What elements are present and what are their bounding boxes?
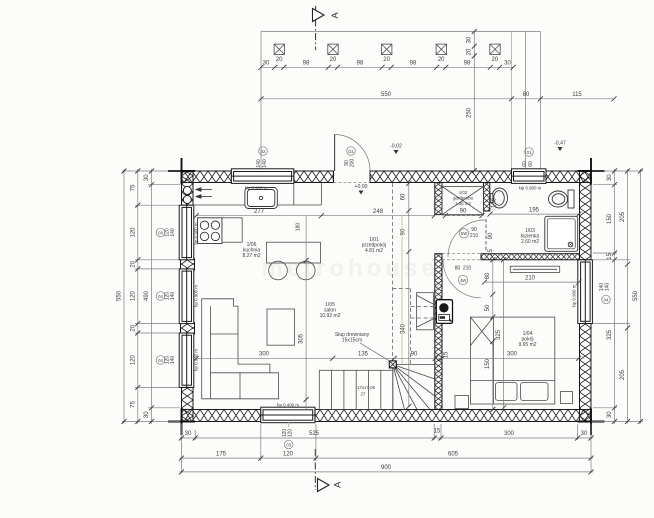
- bottom wall segment 2: [315, 410, 591, 422]
- bedroom door swing arc: [443, 260, 481, 298]
- right dim column 550: [633, 169, 643, 425]
- svg-text:135: 135: [358, 352, 369, 358]
- top wall segment 4: [546, 171, 591, 183]
- post label + leader: [335, 332, 391, 362]
- svg-text:305: 305: [299, 333, 305, 344]
- svg-text:60: 60: [528, 161, 534, 167]
- svg-text:30: 30: [607, 411, 613, 418]
- svg-text:75: 75: [131, 401, 137, 408]
- svg-text:metrohouse: metrohouse: [261, 255, 438, 282]
- svg-text:04: 04: [158, 358, 163, 363]
- nightstand right: [561, 392, 573, 404]
- bed pillow 2: [521, 383, 549, 401]
- svg-text:1/02: 1/02: [459, 190, 468, 195]
- section marker A bottom: [315, 449, 343, 492]
- svg-text:hp 0.900 m: hp 0.900 m: [194, 285, 199, 307]
- right dim column 30/150/15/325/30: [607, 169, 617, 425]
- stairs winder treads: [393, 365, 435, 410]
- left wall pier 2: [181, 323, 195, 334]
- svg-text:20: 20: [492, 57, 499, 63]
- room label lazienka: [521, 228, 540, 245]
- stair olive guide line: [401, 216, 403, 364]
- svg-text:180: 180: [296, 223, 302, 232]
- garderoba left wall: [435, 183, 442, 215]
- right dim column 205/205: [620, 169, 630, 425]
- level mark -0,02: [390, 144, 402, 155]
- svg-text:15: 15: [434, 429, 441, 435]
- bottom dim row2 175/120/605: [179, 451, 594, 460]
- kitchen counter edge: [193, 183, 321, 206]
- kitchen cabinet/fridge: [222, 218, 242, 242]
- svg-text:15: 15: [444, 351, 450, 358]
- svg-text:140: 140: [170, 356, 176, 365]
- vent arrows into chimney: [196, 188, 212, 199]
- svg-text:60: 60: [523, 92, 530, 98]
- svg-text:+0,00: +0,00: [354, 184, 367, 190]
- left dim column 550: [117, 169, 127, 425]
- bed pillow 1: [496, 383, 518, 401]
- svg-text:210: 210: [525, 275, 536, 281]
- svg-text:30: 30: [144, 174, 150, 181]
- top wall segment 2: [294, 171, 334, 183]
- svg-text:20: 20: [383, 57, 390, 63]
- svg-text:550: 550: [633, 290, 639, 301]
- left dim column 30/490/30: [144, 169, 154, 425]
- island stool 2: [297, 261, 316, 280]
- svg-text:30: 30: [504, 61, 511, 67]
- entrance door D 90/200: [333, 134, 370, 182]
- bathroom door label (5W)90/210: [459, 227, 478, 239]
- hall vertical chain 60/90/340: [401, 181, 412, 409]
- svg-text:20: 20: [467, 48, 473, 55]
- svg-text:120: 120: [283, 451, 294, 457]
- svg-text:120: 120: [131, 355, 137, 366]
- svg-text:30: 30: [144, 411, 150, 418]
- svg-text:300: 300: [259, 352, 270, 358]
- svg-text:80: 80: [485, 272, 491, 279]
- bathroom toilet: [549, 190, 575, 208]
- window left W2 (04): [179, 269, 194, 324]
- svg-text:150: 150: [485, 358, 491, 369]
- bedroom 210 dim: [482, 275, 581, 284]
- right window label (04)140/140: [599, 283, 611, 304]
- bathroom washbasin: [490, 188, 507, 208]
- kitchen vertical 180: [296, 223, 302, 232]
- nightstand left: [455, 396, 469, 409]
- svg-text:340: 340: [401, 323, 407, 334]
- svg-text:900: 900: [381, 465, 392, 471]
- salon corner sofa: [202, 299, 279, 399]
- svg-text:9.65 m2: 9.65 m2: [518, 342, 536, 348]
- fireplace air box: [417, 293, 436, 330]
- svg-text:04: 04: [604, 297, 609, 302]
- svg-text:205: 205: [620, 211, 626, 222]
- svg-text:90: 90: [401, 228, 407, 235]
- bathroom shower: [545, 216, 578, 251]
- svg-text:140: 140: [605, 283, 611, 292]
- bathroom door leaf dashed: [485, 219, 487, 251]
- svg-text:120: 120: [288, 429, 294, 438]
- svg-text:90: 90: [460, 209, 467, 215]
- section marker A top: [313, 6, 342, 50]
- svg-text:03: 03: [286, 442, 291, 447]
- svg-text:4W: 4W: [460, 278, 466, 283]
- svg-text:hp 0.900 m: hp 0.900 m: [194, 222, 199, 244]
- svg-text:04: 04: [158, 230, 163, 235]
- svg-text:98: 98: [357, 61, 364, 67]
- left wall segment bottom: [182, 387, 194, 421]
- garderoba right / bathroom left wall: [484, 183, 490, 212]
- room label garderoba: [453, 190, 474, 206]
- bottom extension lines: [182, 424, 592, 473]
- svg-text:8.27 m2: 8.27 m2: [242, 253, 260, 259]
- window bottom W4 (03): [261, 407, 315, 423]
- porch depth chain 30/20/250: [467, 29, 477, 173]
- porch post P5: [490, 44, 500, 54]
- svg-text:300: 300: [504, 431, 515, 437]
- svg-text:140: 140: [170, 292, 176, 301]
- left wall segment top: [182, 171, 194, 205]
- svg-text:30: 30: [467, 36, 473, 43]
- window right W5 (04): [578, 260, 593, 324]
- bedroom 325 vertical: [496, 257, 506, 410]
- svg-text:04: 04: [158, 294, 163, 299]
- svg-text:98: 98: [410, 61, 417, 67]
- svg-text:605: 605: [448, 451, 459, 457]
- bottom wall segment 1: [182, 410, 261, 422]
- svg-text:525: 525: [309, 431, 320, 437]
- porch left edge line down to building: [260, 32, 262, 171]
- svg-text:120: 120: [131, 291, 137, 302]
- svg-text:50: 50: [485, 304, 491, 311]
- svg-text:175: 175: [216, 451, 227, 457]
- svg-text:325: 325: [607, 329, 613, 340]
- bedroom chain 80/50: [485, 257, 495, 319]
- top wall segment 1: [182, 171, 232, 183]
- svg-text:200: 200: [350, 159, 356, 168]
- svg-text:20: 20: [276, 57, 283, 63]
- chimney flue circles in left wall: [183, 187, 191, 195]
- svg-text:90: 90: [411, 352, 418, 358]
- left extension lines: [122, 171, 180, 422]
- svg-text:210: 210: [470, 233, 479, 239]
- svg-text:27: 27: [361, 392, 366, 397]
- svg-text:140: 140: [262, 159, 268, 168]
- top wall segment 3: [370, 171, 512, 183]
- svg-text:20: 20: [438, 57, 445, 63]
- svg-text:D1: D1: [348, 149, 354, 154]
- svg-text:hp 0.400 m: hp 0.400 m: [277, 403, 299, 408]
- left window labels (04)120/140 x3: [156, 228, 176, 364]
- svg-text:A: A: [330, 12, 341, 19]
- corner cross bottom-left: [168, 409, 195, 436]
- top-left window label (02)140/140: [256, 147, 268, 168]
- svg-text:98: 98: [464, 61, 471, 67]
- svg-text:4.81 m2: 4.81 m2: [365, 248, 383, 254]
- svg-text:120: 120: [131, 227, 137, 238]
- bedroom door label (4W)80/210: [455, 266, 472, 285]
- interior dim row 277/248/90: [194, 209, 485, 219]
- svg-text:277: 277: [254, 209, 265, 215]
- bedroom shelf: [510, 266, 559, 272]
- svg-text:-0,47: -0,47: [554, 141, 566, 147]
- island stool 1: [269, 261, 288, 280]
- svg-text:hp 0.900 m: hp 0.900 m: [194, 349, 199, 371]
- window bathroom top (01): [512, 169, 547, 184]
- bedroom left wall: [435, 254, 442, 410]
- porch post P4: [436, 44, 446, 54]
- room label salon: [320, 302, 341, 319]
- salon dim row 300/135/90/15: [194, 351, 450, 361]
- level mark +0,00: [354, 184, 367, 195]
- bedroom door opening dashed: [442, 254, 481, 260]
- svg-text:140: 140: [170, 228, 176, 237]
- svg-text:Np 0.900 m: Np 0.900 m: [245, 186, 268, 191]
- svg-text:195: 195: [529, 207, 540, 213]
- corner cross top-left: [168, 158, 195, 185]
- bottom window label (03)120/150: [282, 422, 294, 449]
- top-right window label (01)60/60: [522, 148, 534, 167]
- svg-text:550: 550: [381, 92, 392, 98]
- porch post P3: [382, 44, 392, 54]
- svg-text:60: 60: [401, 193, 407, 200]
- room label pokoj: [518, 331, 536, 348]
- window kitchen top (02): [231, 169, 293, 184]
- porch post P2: [328, 44, 338, 54]
- svg-text:210: 210: [463, 266, 472, 272]
- bedroom 150 vertical: [485, 339, 495, 412]
- bottom dim row3 900: [179, 465, 594, 474]
- svg-text:17x17,06: 17x17,06: [357, 385, 376, 390]
- garderoba closet with cross: [442, 187, 484, 215]
- svg-text:115: 115: [572, 92, 582, 98]
- left dim column 75/120/20/120/20/120/75: [131, 169, 141, 425]
- right wall segment bottom: [580, 324, 592, 422]
- svg-text:20: 20: [330, 57, 337, 63]
- svg-text:5W: 5W: [461, 231, 467, 236]
- bathroom door swing arc: [448, 220, 485, 257]
- right wall segment top: [580, 171, 592, 260]
- svg-text:1.06 m2: 1.06 m2: [455, 201, 471, 206]
- svg-text:Np 0.900 m: Np 0.900 m: [572, 284, 577, 307]
- svg-text:A: A: [333, 481, 344, 488]
- bedroom dim row 300: [442, 352, 581, 361]
- porch post P1: [274, 44, 284, 54]
- svg-text:30: 30: [581, 431, 588, 437]
- level mark -0,47: [554, 141, 566, 152]
- bathroom south wall: [481, 254, 580, 260]
- entrance door label (D1)90/200: [344, 147, 356, 167]
- left wall pier 1: [181, 259, 195, 270]
- svg-text:-0,02: -0,02: [390, 144, 402, 150]
- 550/60/115 dimension line: [259, 92, 617, 102]
- svg-text:150: 150: [492, 197, 498, 208]
- svg-text:250: 250: [467, 107, 473, 118]
- svg-text:248: 248: [373, 209, 384, 215]
- svg-text:15: 15: [607, 253, 613, 260]
- garderoba opening dashed: [442, 214, 484, 216]
- bathroom small rotated dims: [488, 197, 498, 256]
- stair upper flight dashed outline: [393, 183, 436, 364]
- svg-text:30: 30: [263, 61, 270, 67]
- salon coffee table: [267, 309, 295, 345]
- kitchen stove 4 burners: [198, 218, 222, 244]
- corner cross top-right: [578, 158, 605, 185]
- svg-text:490: 490: [144, 290, 150, 301]
- window left W1 (04): [179, 205, 194, 260]
- window left W3 (04): [179, 333, 194, 387]
- svg-text:90: 90: [488, 232, 494, 239]
- svg-text:20: 20: [131, 324, 137, 331]
- wooden post 15x15: [389, 361, 396, 368]
- bathroom 195 dim: [488, 207, 582, 216]
- svg-text:325: 325: [496, 329, 502, 340]
- stove / chimney: [436, 300, 452, 324]
- svg-text:30: 30: [185, 431, 192, 437]
- svg-text:20: 20: [131, 260, 137, 267]
- stairs note 17x17,06 / 27: [357, 385, 376, 397]
- svg-text:80: 80: [455, 266, 461, 272]
- svg-text:150: 150: [607, 213, 613, 224]
- salon vertical 305: [299, 216, 309, 409]
- svg-text:Np 0.900 m: Np 0.900 m: [519, 186, 542, 191]
- corner cross bottom-right: [578, 409, 605, 436]
- svg-text:15: 15: [488, 249, 494, 256]
- svg-text:2.60 m2: 2.60 m2: [521, 239, 539, 245]
- kitchen sink: [245, 188, 277, 209]
- svg-text:garderoba: garderoba: [453, 196, 474, 201]
- svg-text:550: 550: [117, 290, 123, 301]
- bedroom bed: [470, 317, 554, 404]
- svg-text:10.92 m2: 10.92 m2: [320, 313, 341, 319]
- svg-text:205: 205: [620, 369, 626, 380]
- svg-text:01: 01: [527, 150, 532, 155]
- kitchen island table: [267, 242, 321, 263]
- right extension lines: [592, 171, 643, 422]
- bottom dim row1 30/525/15/300/30: [179, 429, 594, 441]
- svg-text:300: 300: [507, 352, 518, 358]
- room label przedpokoj: [362, 237, 386, 254]
- stairs straight flight: [319, 370, 393, 409]
- porch roof edge line: [261, 31, 540, 33]
- svg-text:98: 98: [303, 61, 310, 67]
- room label kuchnia: [242, 242, 260, 259]
- svg-text:02: 02: [261, 149, 266, 154]
- svg-text:75: 75: [131, 184, 137, 191]
- svg-text:15x15cm: 15x15cm: [342, 338, 362, 344]
- porch post dimension chain: [259, 57, 516, 70]
- svg-text:30: 30: [607, 174, 613, 181]
- porch verticals right: [511, 32, 513, 171]
